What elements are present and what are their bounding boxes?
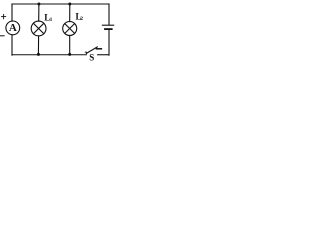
- svg-text:1: 1: [50, 17, 53, 23]
- svg-text:S: S: [89, 53, 94, 62]
- svg-text:2: 2: [80, 16, 83, 22]
- svg-text:A: A: [9, 22, 17, 34]
